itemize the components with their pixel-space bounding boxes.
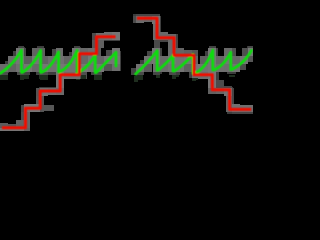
- wire: right red staircase: [137, 18, 251, 109]
- wire: left green sawtooth: [1, 50, 117, 73]
- wire: left red staircase: [2, 37, 116, 128]
- wire: right green sawtooth: [136, 50, 252, 74]
- artifact bleed right of left step end: [42, 105, 54, 111]
- artifact blocks (jpeg-style halo): [0, 14, 253, 131]
